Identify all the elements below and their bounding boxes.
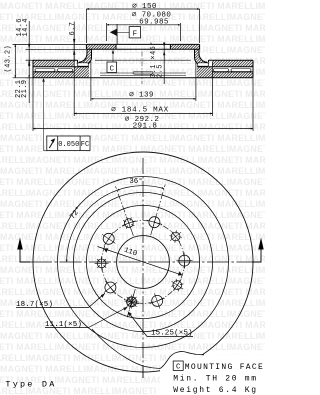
svg-text:F: F bbox=[133, 31, 138, 39]
outer circle d292 bbox=[33, 152, 253, 372]
dim 14.6 arrow upper bbox=[28, 44, 30, 50]
svg-text:⌀ 184.5 MAX: ⌀ 184.5 MAX bbox=[111, 107, 169, 115]
svg-text:Type DA: Type DA bbox=[5, 380, 56, 390]
dim d292 extension left bbox=[32, 78, 34, 131]
radial 254deg bbox=[127, 289, 135, 317]
dim d184.5 line bbox=[74, 113, 212, 115]
rim outer edge right bbox=[252, 60, 254, 78]
72deg angular dimension arc bbox=[67, 190, 117, 262]
vent end slot right junction bbox=[197, 63, 208, 66]
svg-text:0.050: 0.050 bbox=[58, 141, 79, 149]
dim 22.1 ext ticks bbox=[26, 60, 34, 78]
left wall outer curve bbox=[78, 49, 88, 62]
svg-text:36°: 36° bbox=[129, 177, 142, 186]
vent far-side lines center bbox=[100, 73, 186, 75]
dim d150 extension right bbox=[199, 9, 201, 43]
right wall inner curve bbox=[195, 49, 207, 65]
rim bottom line bbox=[33, 77, 253, 79]
hatched hole 254deg bbox=[125, 295, 139, 309]
bolt circle centerline d110 bbox=[102, 221, 185, 304]
hatched right rim bottom pad bbox=[197, 67, 253, 78]
bore right edge bbox=[169, 44, 171, 49]
hatched right rim top pad bbox=[212, 60, 253, 67]
leader 18.7 bbox=[16, 293, 105, 307]
vent vane slot far-side center bbox=[133, 71, 153, 74]
svg-text:11.1(×5): 11.1(×5) bbox=[45, 321, 82, 329]
hat plate bottom line bbox=[86, 48, 199, 50]
wavy break line + text bubble bbox=[92, 329, 265, 395]
dim d292 line bbox=[33, 128, 253, 130]
wavy break line stroke bbox=[92, 329, 204, 369]
vent bottom line right bbox=[212, 71, 253, 73]
svg-text:21.9: 21.9 bbox=[21, 80, 29, 98]
bore left edge bbox=[115, 44, 117, 49]
svg-text:C: C bbox=[176, 364, 181, 372]
centerline redraw bbox=[142, 366, 144, 378]
radial 110deg bbox=[116, 186, 134, 235]
hatched left rim top pad bbox=[33, 60, 74, 67]
datum F triangle bbox=[110, 29, 117, 36]
hole crosshairs bbox=[95, 214, 193, 309]
vent vane slot right inner bbox=[214, 69, 229, 72]
dim d139 extension left bbox=[90, 62, 92, 101]
svg-text:69.985: 69.985 bbox=[139, 18, 169, 26]
section plane arrow right bbox=[252, 238, 264, 263]
dim d184.5 extension right bbox=[212, 62, 214, 116]
left wall inner curve bbox=[80, 49, 92, 65]
svg-text:C: C bbox=[109, 66, 114, 74]
svg-text:14.4: 14.4 bbox=[22, 18, 30, 36]
plain hole 290deg bbox=[152, 295, 163, 306]
dim 43.2 line bbox=[14, 44, 16, 77]
dim 6.7 extension line hat bottom bbox=[26, 48, 87, 50]
rim top line right bbox=[209, 59, 254, 61]
dim 6.7 arrow upper bbox=[73, 39, 75, 45]
dim d150 line bbox=[86, 8, 199, 10]
circle d184.5 bbox=[73, 192, 212, 331]
dim d139 line bbox=[91, 98, 196, 100]
dim 43.2 extension bottom bbox=[13, 77, 34, 79]
dim d70 extension left bbox=[106, 23, 108, 41]
datum C leader bbox=[112, 53, 114, 62]
vent vane slot right outer bbox=[231, 69, 251, 72]
chamfer arrow lower bbox=[163, 51, 165, 56]
vertical centerline bbox=[142, 158, 144, 378]
ticked hole 326deg bbox=[171, 279, 183, 291]
svg-text:(43.2): (43.2) bbox=[5, 45, 13, 73]
hatched left hat wall bbox=[77, 49, 92, 65]
datum C box bbox=[107, 50, 117, 74]
bolt holes bbox=[97, 217, 190, 309]
svg-text:⌀ 139: ⌀ 139 bbox=[129, 92, 154, 100]
hat mounting face top line bbox=[86, 43, 199, 45]
dim 22.1 line bbox=[28, 60, 30, 78]
circle d150 bbox=[86, 205, 199, 318]
leader 15.25 bbox=[128, 312, 193, 337]
vent vane slot left outer bbox=[35, 69, 55, 72]
hatched left rim bottom pad bbox=[33, 67, 89, 78]
leader 11.1 bbox=[45, 307, 128, 328]
runout symbol bbox=[49, 138, 55, 148]
rim top line left bbox=[33, 59, 78, 61]
dim 14.6 arrow lower bbox=[28, 60, 30, 65]
hatched hat plate left bbox=[86, 44, 116, 49]
section plane arrow left bbox=[17, 238, 30, 263]
vent bottom line left bbox=[33, 71, 74, 73]
svg-text:⌀ 150: ⌀ 150 bbox=[132, 3, 157, 11]
dim d184.5 extension left bbox=[73, 40, 75, 116]
chamfer dim line bbox=[163, 42, 165, 84]
svg-text:FC: FC bbox=[81, 141, 89, 149]
ticked hole 182deg bbox=[97, 259, 106, 268]
horizontal centerline bbox=[30, 261, 256, 263]
vent vane slot left inner bbox=[58, 69, 73, 72]
dim d70 extension right bbox=[179, 23, 181, 41]
svg-text:6.7: 6.7 bbox=[69, 22, 77, 36]
section dimension texts bbox=[5, 3, 172, 131]
dim d292 extension right bbox=[252, 78, 254, 131]
dim 22.1 tail bbox=[28, 78, 30, 103]
vent top line left bbox=[33, 66, 89, 68]
dim 6.7 line bbox=[73, 22, 75, 63]
runout feature control frame bbox=[42, 78, 90, 151]
dim d70 line bbox=[107, 24, 181, 26]
svg-text:18.7(×5): 18.7(×5) bbox=[16, 301, 53, 309]
text block bottom right bbox=[173, 361, 264, 395]
hat plate right end edge bbox=[199, 44, 201, 49]
hat plate left end edge bbox=[85, 44, 87, 49]
chamfer arrow upper bbox=[163, 43, 165, 48]
dim 14.6 line bbox=[28, 21, 30, 67]
dim d150 extension left bbox=[85, 9, 87, 43]
ticked hole 110deg bbox=[123, 218, 134, 229]
datum F box bbox=[110, 24, 141, 44]
plain hole 218deg bbox=[105, 282, 116, 293]
svg-text:MOUNTING FACE: MOUNTING FACE bbox=[185, 363, 264, 372]
dim 6.7 arrow lower bbox=[73, 49, 75, 55]
vent top line right bbox=[197, 66, 253, 68]
d110 diameter dimension line bbox=[98, 247, 183, 276]
36deg angular dimension arc bbox=[117, 186, 164, 191]
svg-text:Min. TH 20 mm: Min. TH 20 mm bbox=[173, 374, 258, 383]
plain hole 2deg bbox=[179, 255, 190, 266]
svg-text:15.25(×5): 15.25(×5) bbox=[151, 330, 193, 338]
rim top far-side line bbox=[95, 59, 191, 61]
dim 43.2 extension top bbox=[13, 43, 87, 45]
bore circle d70 bbox=[117, 236, 170, 289]
svg-text:291.8: 291.8 bbox=[133, 122, 158, 130]
datum C ref box bbox=[173, 361, 183, 370]
right wall outer curve bbox=[199, 49, 209, 62]
ticked hole 38deg bbox=[169, 230, 181, 242]
plain hole 146deg bbox=[103, 233, 114, 244]
section vertical centerline bbox=[141, 52, 143, 85]
datum F leader bbox=[117, 31, 129, 33]
hatched right hat wall bbox=[195, 49, 210, 65]
svg-text:Weight 6.4 Kg: Weight 6.4 Kg bbox=[173, 386, 258, 395]
radial 74deg bbox=[151, 185, 166, 236]
runout frame leader bbox=[43, 79, 45, 151]
dim d139 extension right bbox=[195, 62, 197, 101]
rim outer edge left bbox=[32, 60, 34, 78]
vent end slot left junction bbox=[77, 63, 88, 66]
svg-text:2.5: 2.5 bbox=[157, 64, 165, 78]
hatched hat plate right bbox=[170, 44, 199, 49]
radial centerlines for angular dims bbox=[116, 185, 166, 318]
braking surface inner circle bbox=[58, 177, 229, 348]
plain hole 74deg bbox=[149, 217, 160, 228]
